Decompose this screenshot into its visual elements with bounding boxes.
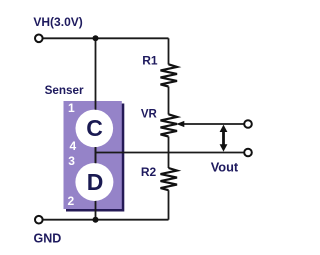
svg-text:R1: R1 <box>142 54 158 68</box>
svg-text:Vout: Vout <box>211 159 239 174</box>
svg-text:GND: GND <box>34 232 62 246</box>
svg-text:VH(3.0V): VH(3.0V) <box>33 15 82 29</box>
svg-text:Senser: Senser <box>45 84 84 97</box>
svg-text:C: C <box>86 115 103 141</box>
svg-text:D: D <box>87 169 104 195</box>
svg-text:VR: VR <box>141 109 158 121</box>
svg-text:4: 4 <box>70 139 77 153</box>
svg-text:3: 3 <box>68 154 75 168</box>
svg-text:R2: R2 <box>141 165 157 179</box>
svg-text:1: 1 <box>68 101 75 115</box>
svg-text:2: 2 <box>68 194 75 208</box>
